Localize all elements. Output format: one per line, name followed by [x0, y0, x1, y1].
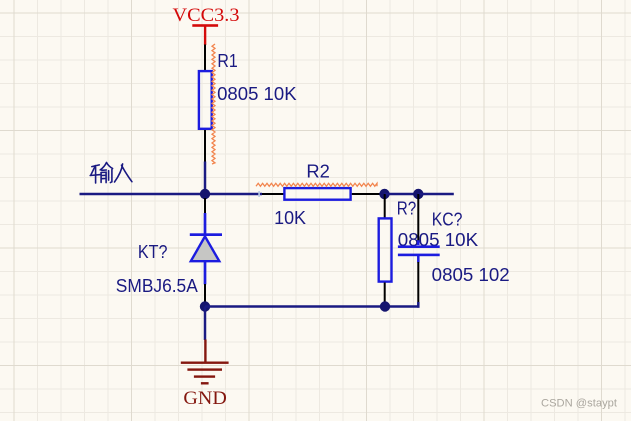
junction node at input [200, 189, 210, 199]
unrouted-net squiggle beside R1 [212, 44, 215, 164]
svg-text:0805 10K: 0805 10K [217, 84, 297, 104]
svg-text:KC?: KC? [432, 210, 463, 230]
resistor R2 (horizontal) [262, 188, 385, 200]
wire from R1 to input node [204, 162, 207, 195]
wire from bottom node to GND [204, 307, 207, 341]
svg-text:CSDN @staypt: CSDN @staypt [541, 398, 617, 410]
resistor R1 [199, 45, 212, 163]
svg-text:GND: GND [183, 388, 226, 409]
net label 输入 (hand-drawn CJK strokes) [90, 163, 132, 184]
svg-text:0805 102: 0805 102 [432, 265, 510, 285]
resistor R? (vertical) [379, 194, 392, 307]
svg-text:VCC3.3: VCC3.3 [173, 5, 240, 26]
svg-text:SMBJ6.5A: SMBJ6.5A [116, 276, 198, 296]
TVS diode KT? [190, 198, 222, 303]
svg-text:R2: R2 [306, 162, 330, 182]
svg-text:KT?: KT? [138, 242, 168, 262]
unrouted-net squiggle above R2 [256, 183, 377, 186]
junction node at R? bottom [380, 301, 390, 311]
wire: main horizontal input net [80, 193, 263, 196]
wire: bottom horizontal net [205, 305, 420, 308]
node A junction (R2 / R?) [379, 189, 389, 199]
capacitor KC? [398, 194, 440, 302]
svg-text:R1: R1 [217, 51, 237, 71]
power port VCC3.3 [173, 5, 240, 45]
wire between junctions [385, 193, 419, 196]
junction node below diode [200, 301, 210, 311]
wire: cap bottom riser [417, 302, 420, 308]
ground GND symbol [181, 340, 229, 410]
svg-text:R?: R? [397, 198, 417, 218]
node B junction (cap tap) [413, 189, 423, 199]
svg-text:10K: 10K [274, 208, 306, 228]
net end marker (pale cross) [258, 191, 260, 197]
wire stub to the right [418, 193, 454, 196]
